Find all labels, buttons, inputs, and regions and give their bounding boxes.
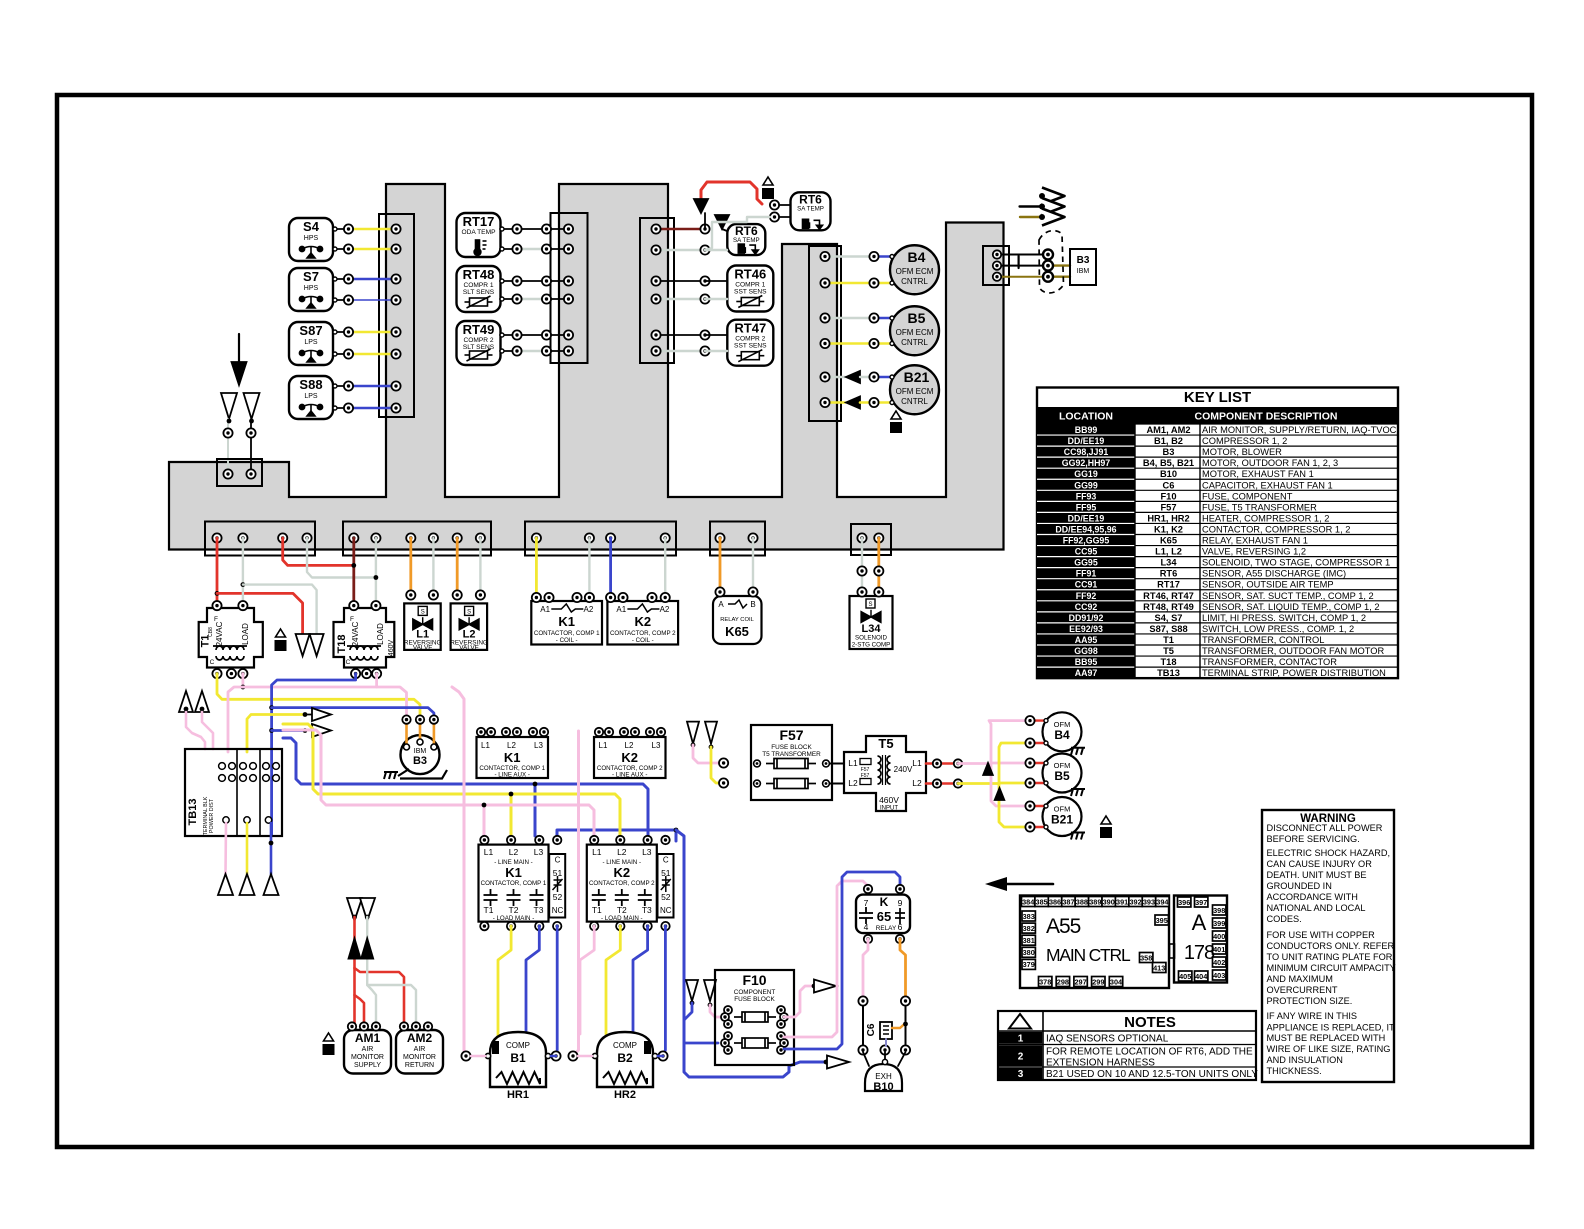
sensor RT49 — [457, 321, 501, 365]
svg-text:MOTOR, OUTDOOR FAN 1, 2, 3: MOTOR, OUTDOOR FAN 1, 2, 3 — [1202, 458, 1338, 468]
svg-text:RT6: RT6 — [735, 224, 758, 238]
arrow left big — [985, 877, 1053, 891]
svg-text:DD/EE94,95,96: DD/EE94,95,96 — [1055, 524, 1116, 534]
warning box — [1262, 810, 1396, 1082]
svg-text:FOR REMOTE LOCATION OF RT6, AD: FOR REMOTE LOCATION OF RT6, ADD THE — [1046, 1047, 1253, 1058]
wire tower2-right row — [651, 330, 727, 339]
svg-text:COMPR 2: COMPR 2 — [735, 336, 765, 343]
wire B21 row2 — [820, 397, 894, 409]
wire tower2-right row — [651, 276, 727, 285]
svg-text:460V: 460V — [879, 795, 899, 805]
wire yellow K1 T2 hook — [498, 926, 511, 1038]
svg-text:SENSOR, A55 DISCHARGE (IMC): SENSOR, A55 DISCHARGE (IMC) — [1202, 569, 1346, 579]
svg-text:1: 1 — [1018, 1034, 1024, 1045]
svg-text:C6: C6 — [1163, 480, 1175, 490]
wire red strip A3 — [283, 538, 354, 565]
wire orange K65 coil — [719, 538, 722, 588]
svg-text:298: 298 — [1057, 977, 1069, 986]
svg-text:FF92: FF92 — [1076, 591, 1097, 601]
wire white strip A4 — [307, 538, 376, 578]
svg-text:K1: K1 — [504, 750, 521, 765]
svg-text:LOCATION: LOCATION — [1059, 411, 1113, 423]
svg-text:402: 402 — [1213, 958, 1225, 967]
switch S88 — [289, 376, 333, 419]
wire RT row white — [500, 346, 573, 355]
connector strip tower3 — [809, 246, 841, 421]
svg-text:L1: L1 — [481, 741, 490, 750]
svg-text:L2: L2 — [617, 847, 627, 857]
svg-text:CONTACTOR, COMP 2: CONTACTOR, COMP 2 — [610, 630, 676, 637]
svg-text:B5: B5 — [1054, 769, 1070, 783]
svg-text:52: 52 — [553, 892, 563, 902]
wire yellow K1 coil — [535, 538, 538, 593]
svg-text:- LOAD MAIN -: - LOAD MAIN - — [601, 915, 643, 922]
wire blue cbox link — [557, 828, 826, 1077]
svg-text:RELAY: RELAY — [876, 925, 897, 932]
step connector box — [217, 459, 262, 486]
terminal strip D — [710, 522, 765, 556]
svg-text:SENSOR, SAT. LIQUID TEMP., COM: SENSOR, SAT. LIQUID TEMP., COMP 1, 2 — [1202, 602, 1380, 612]
arrow RT6 splice 2 — [715, 215, 729, 229]
svg-text:MINIMUM CIRCUIT AMPACITY: MINIMUM CIRCUIT AMPACITY — [1267, 963, 1396, 973]
wire B4 row2 — [820, 278, 894, 287]
motor B10 exhaust — [863, 1052, 906, 1093]
svg-text:HR1: HR1 — [507, 1089, 529, 1101]
wire blue K2 coil — [609, 538, 612, 593]
svg-text:RT46, RT47: RT46, RT47 — [1143, 591, 1194, 601]
svg-text:RT48: RT48 — [463, 267, 495, 282]
svg-text:24VAC: 24VAC — [215, 621, 224, 646]
wire T5 right red — [926, 759, 988, 767]
svg-text:RETURN: RETURN — [405, 1062, 434, 1069]
wire pink K2 T1 hook — [580, 926, 594, 1034]
svg-text:L2: L2 — [509, 847, 519, 857]
wire red T18 — [351, 538, 356, 606]
svg-text:CONDUCTORS ONLY. REFER: CONDUCTORS ONLY. REFER — [1267, 941, 1395, 951]
svg-text:B21: B21 — [1051, 813, 1073, 827]
svg-text:AIR MONITOR, SUPPLY/RETURN, IA: AIR MONITOR, SUPPLY/RETURN, IAQ-TVOC — [1202, 425, 1397, 435]
arrow pair near B3 — [303, 708, 331, 737]
terminal strip A — [205, 522, 315, 556]
svg-text:NC: NC — [552, 906, 564, 915]
svg-text:C: C — [210, 659, 215, 666]
svg-text:L1: L1 — [599, 741, 608, 750]
border frame — [57, 95, 1532, 1147]
svg-text:2: 2 — [1018, 1052, 1024, 1063]
svg-text:B3: B3 — [413, 755, 427, 767]
svg-text:388: 388 — [1076, 897, 1088, 906]
svg-text:S88: S88 — [299, 377, 322, 392]
svg-text:396: 396 — [1178, 898, 1190, 907]
svg-text:FUSE BLOCK: FUSE BLOCK — [771, 744, 812, 751]
plug right of B21 — [1101, 816, 1111, 824]
svg-text:L1, L2: L1, L2 — [1155, 547, 1182, 557]
svg-text:RT48, RT49: RT48, RT49 — [1143, 602, 1194, 612]
svg-text:9: 9 — [898, 898, 903, 908]
svg-text:240V: 240V — [894, 765, 913, 774]
svg-text:WIRE OF LIKE SIZE, RATING: WIRE OF LIKE SIZE, RATING — [1267, 1044, 1391, 1054]
transformer T1 — [199, 601, 263, 678]
triangle pair left feed — [221, 393, 260, 419]
svg-text:- COIL -: - COIL - — [556, 637, 578, 644]
svg-text:K1: K1 — [505, 865, 522, 880]
wire orange L2 — [456, 538, 459, 594]
svg-text:K2: K2 — [613, 865, 630, 880]
svg-text:24VAC: 24VAC — [351, 621, 360, 646]
svg-text:BB95: BB95 — [1075, 657, 1098, 667]
plug RT6 remote — [763, 177, 773, 185]
svg-text:B4: B4 — [908, 249, 926, 265]
svg-text:CNTRL: CNTRL — [901, 277, 928, 286]
wire RT row black — [500, 330, 573, 339]
terminals strip D — [715, 533, 757, 542]
sensor RT48 — [457, 266, 501, 312]
svg-text:T18: T18 — [336, 635, 348, 654]
svg-text:B1, B2: B1, B2 — [1154, 436, 1183, 446]
svg-text:THICKNESS.: THICKNESS. — [1267, 1066, 1322, 1076]
svg-text:HPS: HPS — [304, 285, 319, 292]
wire white T1 primary — [241, 538, 317, 634]
fuse block F57 — [719, 725, 832, 800]
arrow triple chevron top — [1020, 188, 1065, 226]
relay K65 contacts — [856, 885, 910, 943]
svg-text:RT6: RT6 — [1160, 569, 1178, 579]
terminals strip B — [349, 533, 485, 542]
svg-text:SENSOR, OUTSIDE AIR TEMP: SENSOR, OUTSIDE AIR TEMP — [1202, 580, 1334, 590]
svg-text:L1: L1 — [484, 847, 494, 857]
motor OFM B4 — [1025, 712, 1085, 755]
svg-text:T3: T3 — [642, 905, 652, 915]
svg-text:ODA TEMP: ODA TEMP — [462, 229, 497, 236]
wire tower2-right row — [651, 346, 727, 355]
connector strip tower1 — [379, 214, 414, 417]
svg-text:SA TEMP: SA TEMP — [733, 237, 760, 244]
wire pink F10 to arrow — [784, 980, 836, 1018]
compressor B1 — [461, 1032, 560, 1101]
wire yellow F57 — [711, 747, 719, 783]
svg-text:VALVE, REVERSING 1,2: VALVE, REVERSING 1,2 — [1202, 547, 1306, 557]
sensor RT6 remote — [791, 192, 831, 230]
wire S7 pin2 — [333, 295, 401, 304]
wire F57 to T5 — [830, 764, 852, 784]
wire left feed — [223, 419, 255, 462]
svg-text:379: 379 — [1023, 960, 1035, 969]
terminal block TB13 — [185, 749, 282, 836]
svg-text:CAPACITOR, EXHAUST FAN 1: CAPACITOR, EXHAUST FAN 1 — [1202, 480, 1333, 490]
svg-text:SST SENS: SST SENS — [734, 343, 767, 350]
svg-text:413: 413 — [1153, 963, 1165, 972]
svg-text:T5 TRANSFORMER: T5 TRANSFORMER — [762, 751, 821, 758]
svg-text:CC98,JJ91: CC98,JJ91 — [1064, 447, 1109, 457]
wire blue K1 NC down — [556, 926, 557, 1056]
svg-text:RELAY COIL: RELAY COIL — [720, 617, 754, 623]
svg-text:L3: L3 — [652, 741, 661, 750]
svg-text:A1: A1 — [616, 605, 626, 614]
arrow splice AM pair — [349, 938, 374, 958]
svg-text:CONTACTOR, COMP 1: CONTACTOR, COMP 1 — [534, 630, 600, 637]
svg-text:378: 378 — [1039, 977, 1051, 986]
wire S4 pin2 — [333, 244, 401, 253]
svg-text:OFM ECM: OFM ECM — [896, 328, 934, 337]
sensor RT47 — [727, 320, 773, 366]
svg-text:NC: NC — [660, 906, 672, 915]
svg-text:L34: L34 — [1160, 558, 1177, 568]
svg-text:384: 384 — [1022, 897, 1035, 906]
wire orange K65 down — [900, 939, 906, 1001]
svg-text:RT49: RT49 — [463, 322, 495, 337]
svg-text:BB99: BB99 — [1075, 425, 1098, 435]
svg-text:380: 380 — [1023, 948, 1035, 957]
control board A178 — [1170, 896, 1228, 983]
wire white K65 coil — [752, 538, 754, 588]
svg-text:400: 400 — [1213, 932, 1225, 941]
svg-text:T5: T5 — [1163, 646, 1174, 656]
svg-text:382: 382 — [1023, 924, 1035, 933]
svg-text:401: 401 — [1213, 945, 1225, 954]
air monitor AM1 — [344, 1022, 391, 1073]
wire RT row black — [500, 224, 573, 233]
svg-text:DISCONNECT ALL POWER: DISCONNECT ALL POWER — [1267, 823, 1383, 833]
svg-text:L2: L2 — [625, 741, 634, 750]
wire T5 right yellow — [926, 779, 999, 787]
svg-text:T1: T1 — [1163, 635, 1174, 645]
wire RT6 remote pigtails — [705, 200, 790, 250]
svg-text:A55: A55 — [1046, 915, 1081, 938]
wire RT row black — [500, 276, 573, 285]
svg-text:S4, S7: S4, S7 — [1155, 613, 1183, 623]
svg-text:FUSE, T5 TRANSFORMER: FUSE, T5 TRANSFORMER — [1202, 502, 1317, 512]
terminals strip A — [212, 533, 311, 542]
contactor K1 coil — [531, 593, 602, 645]
svg-text:MONITOR: MONITOR — [351, 1054, 384, 1061]
svg-text:CB8: CB8 — [208, 627, 214, 637]
svg-text:A2: A2 — [584, 605, 594, 614]
arrow pair AM feed — [347, 898, 375, 921]
svg-text:AA97: AA97 — [1075, 668, 1098, 678]
svg-text:ACCORDANCE WITH: ACCORDANCE WITH — [1267, 892, 1358, 902]
svg-text:GG92,HH97: GG92,HH97 — [1062, 458, 1111, 468]
wire white L1 — [432, 538, 434, 594]
arrow RT6 splice 1 — [694, 199, 708, 213]
svg-text:304: 304 — [1110, 977, 1123, 986]
sensor RT17 — [457, 213, 501, 257]
wire white K2 coil — [664, 538, 666, 593]
relay K65 coil — [713, 587, 762, 644]
wire pink K2aux run — [573, 731, 579, 1056]
svg-text:GG99: GG99 — [1074, 480, 1098, 490]
sensor RT6 local — [727, 224, 765, 255]
wire pink T1 T18 B3 TB13 — [228, 674, 407, 752]
wire S7 pin1 — [333, 274, 401, 283]
valve L2 — [450, 590, 488, 651]
svg-text:AIR: AIR — [362, 1046, 374, 1053]
svg-text:CONTACTOR, COMP 1: CONTACTOR, COMP 1 — [481, 880, 547, 887]
svg-text:LOAD: LOAD — [241, 623, 250, 645]
svg-text:LOAD: LOAD — [376, 623, 385, 645]
terminal strip B — [343, 522, 491, 556]
svg-text:DD91/92: DD91/92 — [1069, 613, 1104, 623]
svg-text:FF92,GG95: FF92,GG95 — [1063, 536, 1110, 546]
key list table — [1037, 388, 1398, 679]
svg-text:SLT SENS: SLT SENS — [463, 289, 495, 296]
wire B21 row1 — [820, 371, 894, 383]
svg-text:F57: F57 — [1160, 502, 1176, 512]
motor B4 top — [890, 245, 939, 294]
svg-text:TERMINAL STRIP, POWER DISTRIBU: TERMINAL STRIP, POWER DISTRIBUTION — [1202, 668, 1386, 678]
svg-text:AND MAXIMUM: AND MAXIMUM — [1267, 974, 1333, 984]
svg-text:358: 358 — [1140, 953, 1152, 962]
svg-text:404: 404 — [1195, 972, 1208, 981]
svg-text:VALVE: VALVE — [459, 644, 479, 651]
svg-text:BEFORE SERVICING.: BEFORE SERVICING. — [1267, 834, 1360, 844]
svg-text:L3: L3 — [642, 847, 652, 857]
svg-text:IBM: IBM — [414, 748, 427, 755]
svg-text:K1: K1 — [558, 614, 575, 629]
svg-text:GG98: GG98 — [1074, 646, 1098, 656]
svg-text:B4, B5, B21: B4, B5, B21 — [1143, 458, 1194, 468]
svg-text:B2: B2 — [617, 1051, 633, 1065]
svg-text:405: 405 — [1179, 972, 1191, 981]
motor OFM B5 — [1025, 754, 1085, 797]
svg-text:MUST BE REPLACED WITH: MUST BE REPLACED WITH — [1267, 1033, 1386, 1043]
svg-text:6: 6 — [898, 922, 903, 932]
svg-text:MOTOR, BLOWER: MOTOR, BLOWER — [1202, 447, 1282, 457]
wire RT6 red loop — [701, 182, 762, 231]
wire blue TB13 down — [269, 823, 274, 874]
svg-text:394: 394 — [1156, 897, 1169, 906]
wire S87 pin1 — [333, 327, 401, 336]
svg-text:RT17: RT17 — [463, 214, 495, 229]
svg-text:HR2: HR2 — [614, 1089, 636, 1101]
svg-text:COMPONENT: COMPONENT — [734, 989, 776, 996]
motor B21 top — [890, 365, 939, 414]
svg-text:L1: L1 — [592, 847, 602, 857]
svg-text:COMP: COMP — [506, 1041, 530, 1050]
svg-text:GROUNDED IN: GROUNDED IN — [1267, 881, 1332, 891]
svg-text:SWITCH, LOW PRESS., COMP. 1, 2: SWITCH, LOW PRESS., COMP. 1, 2 — [1202, 624, 1354, 634]
svg-text:A2: A2 — [660, 605, 670, 614]
triangle pair near T1 — [296, 634, 324, 656]
svg-text:DEATH. UNIT MUST BE: DEATH. UNIT MUST BE — [1267, 870, 1367, 880]
svg-text:INPUT: INPUT — [880, 806, 898, 812]
svg-text:AM1, AM2: AM1, AM2 — [1146, 425, 1190, 435]
svg-text:GG19: GG19 — [1074, 469, 1098, 479]
svg-text:AND INSULATION: AND INSULATION — [1267, 1055, 1343, 1065]
svg-text:A1: A1 — [540, 605, 550, 614]
svg-text:- LINE AUX -: - LINE AUX - — [494, 772, 529, 779]
svg-text:52: 52 — [661, 892, 671, 902]
svg-text:OVERCURRENT: OVERCURRENT — [1267, 985, 1338, 995]
svg-text:IBM: IBM — [1077, 268, 1090, 275]
contactor K2 coil — [606, 593, 678, 645]
svg-text:RT6: RT6 — [799, 192, 822, 206]
svg-text:CODES.: CODES. — [1267, 914, 1302, 924]
gray harness plenum — [169, 184, 1004, 550]
svg-text:AA95: AA95 — [1075, 635, 1098, 645]
motor B3 box — [1070, 249, 1096, 285]
svg-text:B3: B3 — [1163, 447, 1175, 457]
svg-text:DD/EE19: DD/EE19 — [1068, 436, 1105, 446]
svg-text:TRANSFORMER, CONTACTOR: TRANSFORMER, CONTACTOR — [1202, 657, 1337, 667]
contactor K1 line main — [479, 836, 566, 931]
svg-text:NOTES: NOTES — [1124, 1014, 1176, 1031]
svg-text:B4: B4 — [1054, 728, 1070, 742]
svg-text:SA TEMP: SA TEMP — [797, 205, 824, 212]
svg-text:IAQ SENSORS OPTIONAL: IAQ SENSORS OPTIONAL — [1046, 1034, 1169, 1045]
svg-text:398: 398 — [1213, 906, 1225, 915]
wire yellow TB13 arrow — [247, 715, 303, 753]
svg-text:395: 395 — [1156, 916, 1168, 925]
svg-text:L1: L1 — [912, 758, 922, 768]
terminals strip E — [857, 533, 883, 542]
svg-text:MAIN CTRL: MAIN CTRL — [1046, 945, 1131, 965]
wire tower2-right row — [651, 245, 727, 254]
svg-text:TB13: TB13 — [1157, 668, 1180, 678]
svg-text:T1: T1 — [592, 905, 602, 915]
terminals strip C — [532, 533, 670, 542]
contactor K2 line main — [587, 836, 674, 931]
svg-text:K: K — [880, 895, 889, 909]
svg-text:4: 4 — [864, 922, 869, 932]
svg-text:297: 297 — [1075, 977, 1087, 986]
svg-text:MONITOR: MONITOR — [403, 1054, 436, 1061]
wire pink K65 to F10 — [784, 881, 868, 1037]
svg-text:COMP: COMP — [613, 1041, 637, 1050]
svg-text:7: 7 — [864, 898, 869, 908]
svg-text:AIR: AIR — [414, 1046, 426, 1053]
svg-text:K65: K65 — [1160, 536, 1177, 546]
svg-text:F: F — [214, 616, 218, 623]
svg-text:178: 178 — [1184, 942, 1215, 964]
svg-text:RT46: RT46 — [734, 267, 766, 282]
svg-text:SST SENS: SST SENS — [734, 289, 767, 296]
svg-text:S87: S87 — [299, 323, 322, 338]
svg-text:385: 385 — [1036, 897, 1048, 906]
svg-text:F57: F57 — [861, 773, 870, 779]
svg-text:C: C — [555, 856, 561, 865]
svg-text:FOR USE WITH COPPER: FOR USE WITH COPPER — [1267, 930, 1376, 940]
transformer T5 — [844, 736, 926, 812]
notes table — [998, 1011, 1258, 1080]
compressor B2 — [568, 1032, 667, 1101]
wire red AM — [355, 917, 405, 1026]
svg-text:299: 299 — [1092, 977, 1104, 986]
svg-text:F57: F57 — [779, 727, 803, 743]
svg-text:SENSOR, SAT. SUCT TEMP., COMP: SENSOR, SAT. SUCT TEMP., COMP 1, 2 — [1202, 591, 1374, 601]
svg-text:CNTRL: CNTRL — [901, 338, 928, 347]
switch S7 — [289, 268, 333, 311]
wire tower4 to B3 — [993, 250, 1070, 282]
motor B5 top — [890, 306, 939, 355]
svg-text:FF95: FF95 — [1076, 502, 1097, 512]
svg-text:A: A — [718, 600, 724, 609]
capacitor C6 — [858, 996, 910, 1054]
svg-text:EXTENSION HARNESS: EXTENSION HARNESS — [1046, 1058, 1155, 1069]
svg-text:COMPONENT DESCRIPTION: COMPONENT DESCRIPTION — [1195, 411, 1338, 423]
svg-text:2-STG COMP: 2-STG COMP — [852, 642, 891, 649]
contactor K1 line aux — [477, 728, 549, 779]
svg-text:65: 65 — [877, 909, 891, 924]
svg-text:K2: K2 — [621, 750, 638, 765]
svg-text:VALVE: VALVE — [413, 644, 433, 651]
svg-text:OFM ECM: OFM ECM — [896, 267, 934, 276]
wire blue F10 fuse2 left — [684, 1042, 718, 1045]
plug near T1 — [276, 629, 286, 637]
wire yellow OFM feed — [995, 743, 1030, 827]
wire tower2-right row — [651, 294, 727, 303]
svg-text:B10: B10 — [873, 1081, 893, 1093]
svg-text:T2: T2 — [617, 905, 627, 915]
